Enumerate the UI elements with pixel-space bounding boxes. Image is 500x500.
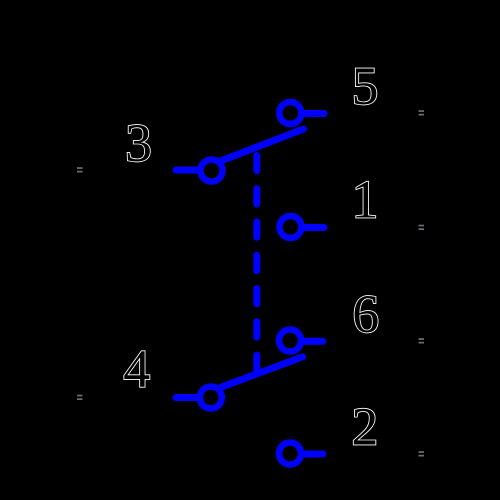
pin 2 tiny name mark [419, 451, 425, 453]
pin 5 contact circle [279, 102, 301, 124]
switch SW1 DPDT symbol [176, 102, 324, 465]
svg-text:4: 4 [123, 339, 150, 399]
pin 6 contact circle [279, 330, 301, 352]
wire pin 6 stub [305, 338, 323, 345]
wire pin 1 stub [305, 224, 324, 231]
svg-text:3: 3 [125, 113, 152, 173]
wire pin 5 stub [305, 110, 324, 117]
svg-text:2: 2 [351, 397, 378, 457]
pin 3 tiny name mark [77, 167, 83, 169]
wire pin 4 stub [176, 394, 198, 401]
pole A lever (pin 3 to pin 5 throw) [221, 129, 304, 161]
pin 1 contact circle [280, 216, 302, 238]
svg-text:5: 5 [352, 56, 379, 116]
pin 4 tiny name mark [77, 395, 83, 397]
pin 3 contact circle [201, 160, 223, 182]
svg-text:6: 6 [352, 284, 379, 344]
wire pin 2 stub [304, 451, 323, 458]
pin 1 tiny name mark [419, 225, 425, 227]
pin 6 tiny name mark [419, 338, 425, 340]
pole B lever (pin 4 to pin 6 throw) [221, 357, 303, 387]
pin 5 tiny name mark [419, 110, 425, 112]
pin 2 contact circle [279, 443, 301, 465]
pin 4 contact circle [200, 387, 222, 409]
svg-text:1: 1 [352, 170, 379, 230]
mechanical linkage dashed line [253, 155, 260, 370]
wire pin 3 stub [176, 167, 198, 174]
